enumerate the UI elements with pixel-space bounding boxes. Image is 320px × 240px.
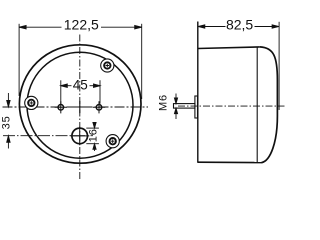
screw boss top-right: [101, 59, 114, 72]
centre mark of front view: [74, 101, 86, 113]
vertical centerline of front view: [79, 35, 81, 181]
dimension M6: [174, 94, 177, 120]
cable hole 16mm: [71, 127, 90, 146]
screw S2 top-right: [104, 62, 110, 68]
side view lens joint line: [256, 47, 258, 162]
inner body circle: [27, 52, 133, 158]
side view body bottom line: [198, 161, 263, 163]
svg-text:82,5: 82,5: [226, 17, 253, 33]
horizontal centerline of front view: [3, 106, 149, 108]
svg-text:45: 45: [73, 78, 88, 93]
dimension 45: [61, 80, 100, 104]
dimension 16: [86, 123, 99, 151]
svg-text:16: 16: [88, 128, 100, 142]
screw boss bottom-right: [106, 135, 119, 148]
dimension 82,5: [198, 22, 279, 110]
screw S3 bottom-right: [110, 138, 116, 144]
side view rear face line: [197, 22, 199, 163]
M6 stud washer plate: [195, 96, 198, 118]
side view centerline: [178, 105, 285, 107]
outer flange circle: [19, 45, 141, 163]
svg-text:122,5: 122,5: [64, 17, 99, 33]
svg-text:35: 35: [0, 115, 12, 129]
mounting hole left: [55, 101, 67, 113]
M6 stud: [174, 104, 195, 109]
dimension 35: [7, 93, 10, 149]
side view lens dome: [260, 47, 278, 163]
mounting hole right: [93, 101, 105, 113]
screw S1 left: [28, 100, 34, 106]
svg-text:M6: M6: [157, 94, 169, 111]
dimension 122,5: [19, 24, 142, 99]
horizontal centerline of 16mm hole: [3, 135, 93, 137]
side view body top line: [198, 47, 260, 49]
screw boss left: [25, 96, 38, 109]
